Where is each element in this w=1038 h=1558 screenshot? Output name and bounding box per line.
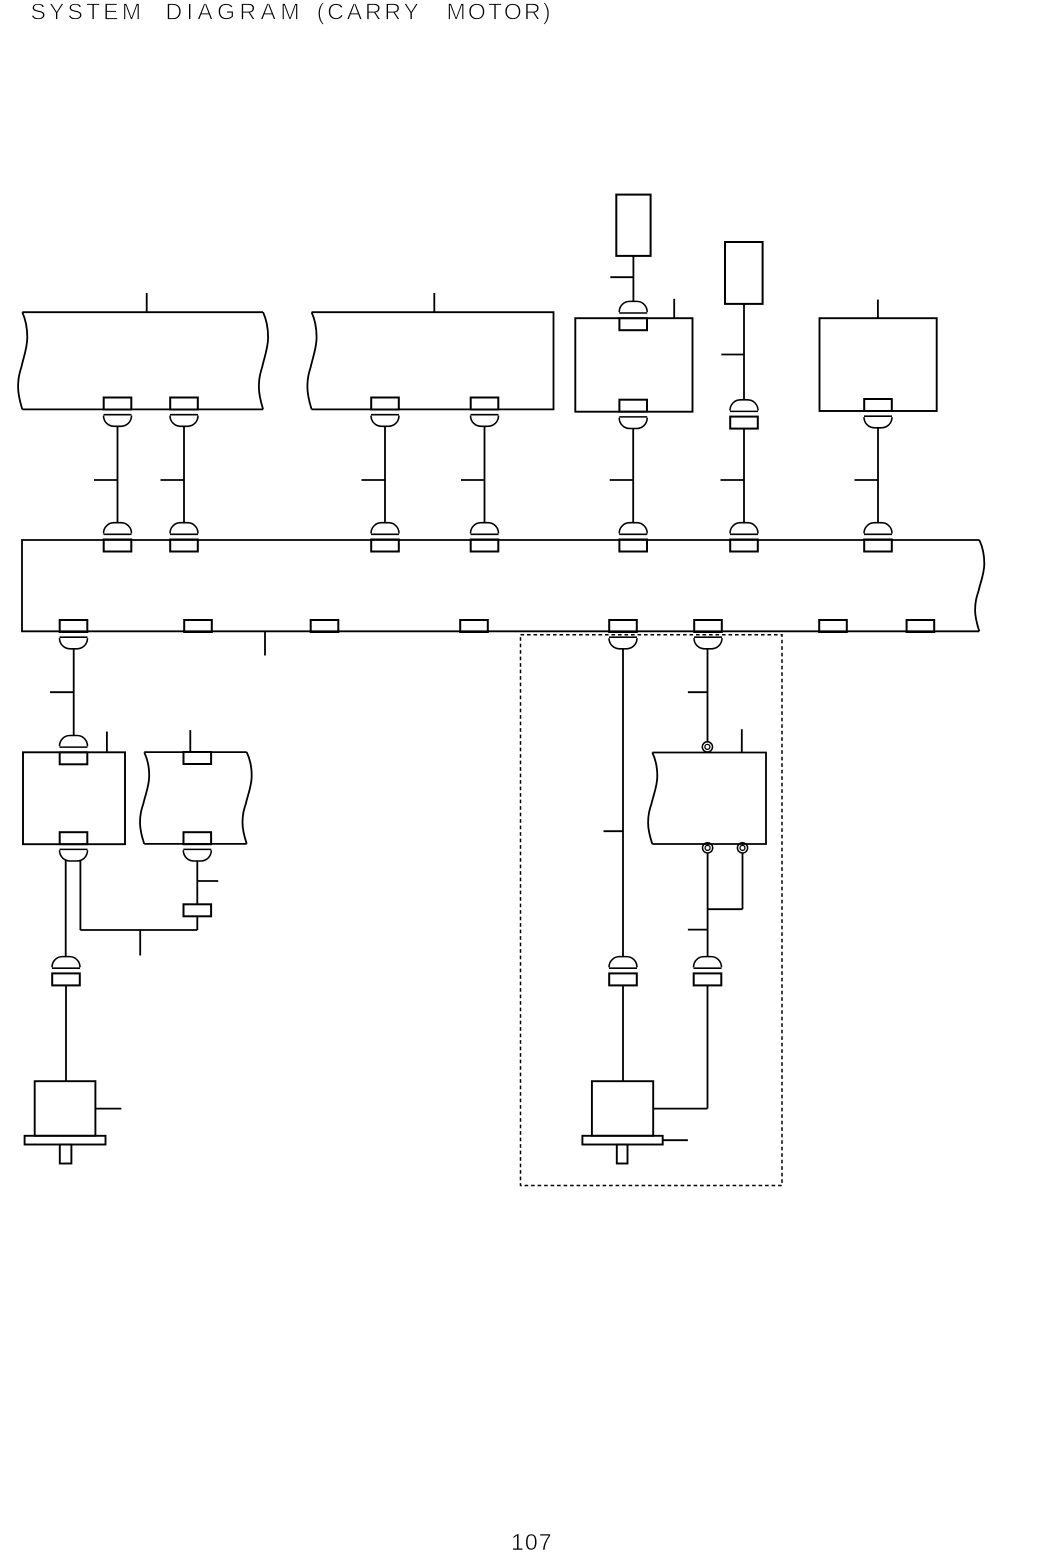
harness wire W4 from box connector to main board [484, 427, 486, 523]
screw terminal T3 on box B7 bottom edge [737, 843, 747, 853]
main board connector CNB5 (rect on bottom edge) [609, 620, 637, 632]
main board connector CNA6 (rect on top edge) [730, 540, 758, 552]
motor lead W15 from IC4 to carry motor M2 [622, 985, 624, 1081]
wire W17 from terminal T2 down to inline connector IC5 [707, 853, 709, 956]
main board connector plug CNA3 (dome above board) [371, 523, 399, 535]
connector terminal CN2-2 (rect on box bottom edge) [471, 398, 499, 410]
main board connector CNB1 (rect on bottom edge) [60, 620, 88, 632]
wire label tick on W5 [610, 479, 634, 481]
svg-text:SYSTEM: SYSTEM [31, 0, 142, 25]
stub tick hanging from wire W12 [139, 930, 141, 956]
wire label tick on W8 [50, 691, 74, 693]
PCB box B4 (top right) [820, 318, 937, 411]
carry motor M2 shaft [617, 1145, 628, 1164]
main board connector CNB7 (rect on bottom edge) [819, 620, 847, 632]
carry motor M1 shaft [60, 1145, 72, 1164]
joining wire W18 (horizontal to W17) [708, 908, 743, 910]
wire W-S1 from sensor S1 down to box B3 top connector [632, 256, 634, 301]
sensor component S1 (small rect above box B3) [616, 195, 650, 256]
inline connector IC5 (plug dome) [694, 957, 722, 969]
wire label tick on W16 [688, 691, 708, 693]
harness wire W7 from box connector to main board [877, 428, 879, 522]
PCB box B2 (top middle-left, torn left edge) [307, 312, 553, 409]
PCB box B5 (lower left) [23, 752, 125, 844]
joining wire W12 (horizontal) [80, 929, 197, 931]
motor lead W19 (horizontal into motor M2) [653, 1108, 707, 1110]
sensor component S2 (small rect, top right area) [725, 242, 763, 304]
connector plug CN5-B (dome below box B5) [60, 849, 88, 861]
screw terminal T2 on box B7 bottom edge [703, 843, 713, 853]
motor lead W19 from IC5 [707, 985, 709, 1108]
wire label tick on W3 [362, 479, 386, 481]
connector plug CN2-1 (dome below box) [371, 415, 399, 427]
stub lead below main board bottom edge [264, 632, 266, 656]
svg-text:(CARRY: (CARRY [317, 0, 419, 25]
wire label tick on W1 [94, 479, 118, 481]
main board connector CNA3 (rect on top edge) [371, 540, 399, 552]
driver unit box B7 (inside dashed area, torn left edge) [648, 753, 766, 845]
wire label tick on W14 [604, 830, 624, 832]
wire label tick on W2 [161, 479, 185, 481]
connector terminal CN5-B (rect on box B5 bottom edge) [60, 832, 88, 844]
stub lead on box B5 top edge [106, 732, 108, 753]
harness wire W16 from main board to driver unit terminal T1 [707, 649, 709, 742]
main board connector plug CNA7 (dome above board) [864, 523, 892, 535]
main board connector CNA7 (rect on top edge) [864, 540, 892, 552]
main board connector plug CNB1 (dome below board) [60, 637, 88, 649]
wire label tick on W17 [688, 929, 708, 931]
main board connector plug CNA4 (dome above board) [471, 523, 499, 535]
main board connector CNB8 (rect on bottom edge) [907, 620, 935, 632]
screw terminal T1 on box B7 top edge [702, 742, 712, 752]
connector plug CN1-1 (dome below box) [104, 415, 132, 427]
connector plug CN6-B (dome below box B6) [183, 849, 211, 861]
wire label tick on W6 [721, 479, 745, 481]
wire W18 from terminal T3 [742, 853, 744, 909]
carry motor M2 mounting flange [582, 1136, 662, 1145]
wire W-S2 from sensor S2 down to inline connector IC1 [743, 304, 745, 400]
wire label tick on W7 [855, 479, 879, 481]
stub lead on box B7 top edge [741, 729, 743, 752]
connector plug CN3-T (dome above box B3) [619, 301, 647, 313]
connector terminal CN3-B (rect on box bottom edge) [619, 400, 647, 412]
connector plug CN2-2 (dome below box) [471, 415, 499, 427]
connector plug CN3-B (dome below box) [619, 417, 647, 429]
svg-text:DIAGRAM: DIAGRAM [166, 0, 300, 25]
inline connector IC5 (receptacle rect) [694, 973, 722, 985]
stub lead on box B3 top edge [673, 299, 675, 318]
inline connector IC3 (plug dome) [52, 957, 80, 969]
wire label tick on W11 [197, 880, 218, 882]
main board connector plug CNB5 (dome below board) [609, 637, 637, 649]
main board connector CNA1 (rect on top edge) [104, 540, 132, 552]
stub lead on motor M2 flange right side [663, 1139, 688, 1141]
connector terminal CN5-T (rect on box B5 top edge) [60, 752, 88, 764]
main board connector CNB6 (rect on bottom edge) [694, 620, 722, 632]
main board connector CNB3 (rect on bottom edge) [311, 620, 339, 632]
PCB box B1 (top-left, torn left/right edges) [18, 312, 268, 409]
harness wire W2 from box connector to main board [183, 427, 185, 523]
main board connector plug CNA1 (dome above board) [104, 523, 132, 535]
main board connector CNA5 (rect on top edge) [619, 540, 647, 552]
main board connector plug CNA5 (dome above board) [619, 523, 647, 535]
PCB box B3 (top middle-right) [575, 318, 692, 412]
carry motor M1 body [35, 1081, 96, 1136]
harness wire W8 from main board down to box B5 [73, 649, 75, 735]
inline connector IC4 (plug dome) [609, 957, 637, 969]
motor lead W13 from IC3 to carry motor M1 [65, 985, 67, 1081]
carry motor M1 mounting flange [25, 1136, 106, 1145]
main board connector plug CNB6 (dome below board) [694, 637, 722, 649]
wire label tick on W-S1 [610, 276, 633, 278]
svg-text:MOTOR): MOTOR) [447, 0, 551, 25]
connector terminal CN1-2 (rect on box bottom edge) [170, 398, 198, 410]
main board connector CNB4 (rect on bottom edge) [460, 620, 488, 632]
connector plug CN1-2 (dome below box) [170, 415, 198, 427]
connector terminal CN1-1 (rect on box bottom edge) [104, 398, 132, 410]
inline connector IC3 (receptacle rect) [52, 973, 80, 985]
wire label tick on W-S2 [721, 354, 744, 356]
wire W11 below inline connector IC2 [196, 916, 198, 930]
harness wire W5 from box connector to main board [632, 429, 634, 522]
dashed option-unit boundary box [521, 635, 783, 1186]
stub lead on motor M1 right side [95, 1108, 121, 1110]
PCB box B6 (lower left, torn left/right edges) [140, 752, 252, 844]
main board connector CNB2 (rect on bottom edge) [184, 620, 212, 632]
carry motor M2 body [592, 1081, 653, 1136]
inline connector IC1 (receptacle rect) [730, 417, 758, 429]
main board connector plug CNA6 (dome above board) [730, 523, 758, 535]
connector terminal CN3-T (rect on box B3 top edge) [619, 318, 647, 330]
connector terminal CN6-T (rect on box B6 top edge) [184, 752, 212, 764]
harness wire W3 from box connector to main board [384, 427, 386, 523]
harness wire W6 from inline connector IC1 to main board [743, 429, 745, 523]
harness wire W14 from main board to inline connector IC4 [622, 649, 624, 956]
connector terminal CN4 (rect on box bottom edge) [864, 399, 892, 411]
connector terminal CN2-1 (rect on box bottom edge) [371, 398, 399, 410]
inline connector IC4 (receptacle rect) [609, 973, 637, 985]
connector plug CN5-T (dome above box B5) [60, 736, 88, 748]
connector terminal CN6-B (rect on box B6 bottom edge) [184, 832, 212, 844]
svg-text:107: 107 [511, 1529, 552, 1555]
stub lead on box B6 top edge [189, 730, 191, 752]
connector plug CN4 (dome below box) [864, 416, 892, 428]
branch wire W10 from box B5 plug [79, 861, 81, 930]
wire label tick on W4 [461, 479, 485, 481]
motor lead W9 from box B5 plug down to inline connector IC3 [65, 860, 67, 956]
main board connector CNA4 (rect on top edge) [471, 540, 499, 552]
inline connector IC1 (plug dome) [730, 400, 758, 412]
harness wire W1 from box connector to main board [117, 427, 119, 523]
stub lead on box B2 top edge [433, 293, 435, 312]
inline connector IC2 (receptacle rect on wire W11) [184, 904, 212, 916]
wire W11 from box B6 plug down to inline connector IC2 [196, 861, 198, 904]
stub lead on box B4 top edge [877, 300, 879, 319]
stub lead on box B1 top edge [146, 293, 148, 312]
main board connector CNA2 (rect on top edge) [170, 540, 198, 552]
main controller board box (long, torn right edge) [22, 540, 984, 631]
main board connector plug CNA2 (dome above board) [170, 523, 198, 535]
